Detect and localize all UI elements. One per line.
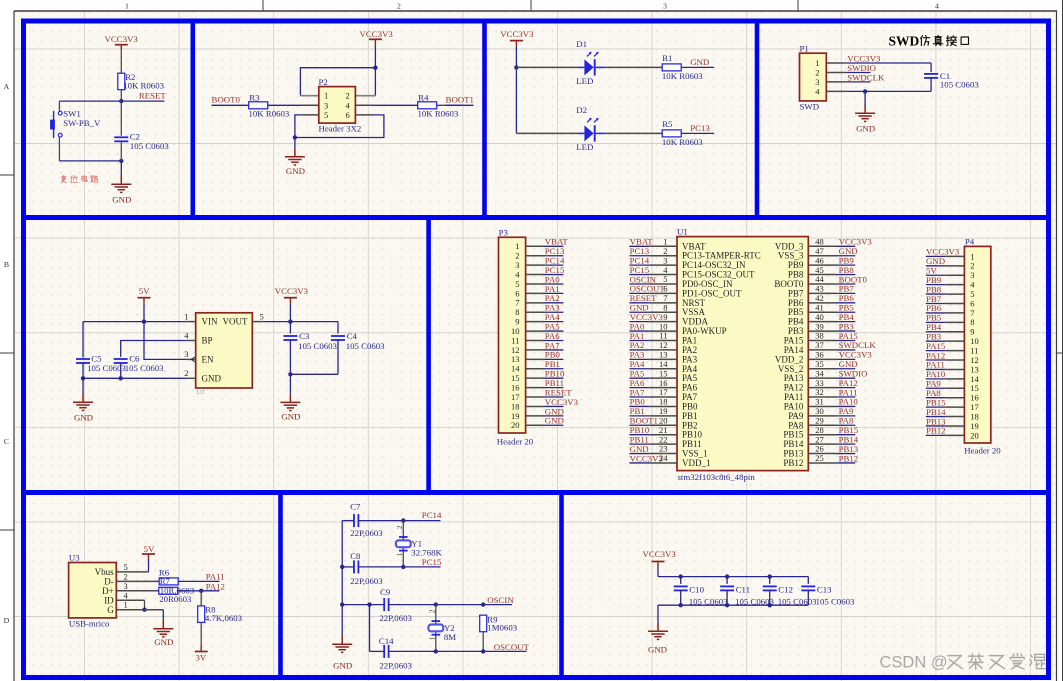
U1 pin 6 wire + net OSCOUT bbox=[629, 284, 677, 294]
P3 pin 8 wire + net PA3 bbox=[515, 303, 563, 318]
svg-text:R1: R1 bbox=[662, 53, 672, 63]
P4 pin 15 wire + net PA9 bbox=[926, 379, 979, 394]
capacitor C12 bbox=[763, 586, 777, 590]
wire left down to switch bbox=[58, 101, 60, 111]
crystal Y1 pin line bbox=[402, 521, 404, 567]
svg-text:SWD: SWD bbox=[889, 33, 920, 48]
resistor R2 bbox=[118, 73, 125, 90]
junction Y1 bottom bbox=[401, 565, 405, 569]
junction C10 bottom bbox=[679, 603, 683, 607]
wire C4 drop bbox=[337, 322, 339, 334]
svg-text:LED: LED bbox=[576, 142, 593, 152]
svg-text:105 C0603: 105 C0603 bbox=[298, 341, 337, 351]
P4 pin 2 wire + net GND bbox=[926, 256, 975, 271]
pin 2 stub of P2 bbox=[355, 95, 375, 97]
U1 pin 24 wire + net VCC3V3 bbox=[629, 453, 677, 463]
junction led rows bbox=[514, 65, 518, 69]
svg-text:PB12: PB12 bbox=[783, 458, 803, 468]
P4 pin 16 wire + net PA8 bbox=[926, 388, 979, 403]
U1 pin 30 wire + net PA9 bbox=[808, 406, 855, 416]
svg-text:10K R0603: 10K R0603 bbox=[123, 80, 164, 90]
wire 5V down bbox=[143, 304, 145, 322]
wire 5V down to EN bbox=[144, 322, 186, 360]
wire C6 to gnd rail bbox=[120, 363, 122, 379]
pin 6 stub of P2 bbox=[355, 114, 373, 116]
U1 pin 7 wire + net RESET bbox=[629, 293, 677, 303]
junction gnd node bbox=[293, 135, 297, 139]
wire D1 to R1 bbox=[605, 66, 662, 68]
svg-text:R5: R5 bbox=[662, 119, 673, 129]
U1 pin 33 wire + net PA12 bbox=[808, 378, 858, 388]
P3 pin 6 wire + net PA1 bbox=[515, 284, 563, 299]
ground (regulator input) bbox=[73, 394, 93, 410]
svg-text:22P,0603: 22P,0603 bbox=[350, 528, 383, 538]
U1 pin 45 wire + net PB8 bbox=[808, 265, 855, 275]
P3 pin 19 wire + net GND bbox=[511, 406, 564, 421]
svg-text:C10: C10 bbox=[689, 585, 704, 595]
svg-text:22P,0603: 22P,0603 bbox=[379, 661, 412, 671]
ground (decoupling) bbox=[648, 623, 668, 639]
svg-text:3V: 3V bbox=[196, 652, 207, 662]
svg-text:U3: U3 bbox=[69, 553, 80, 563]
U1 pin 46 wire + net PB9 bbox=[808, 255, 855, 265]
wire D2 to R5 bbox=[605, 132, 662, 134]
U1 pin 27 wire + net PB14 bbox=[808, 434, 858, 444]
svg-text:3: 3 bbox=[124, 581, 128, 591]
junction Y2 bottom bbox=[434, 649, 438, 653]
svg-text:C4: C4 bbox=[347, 331, 358, 341]
U1 pin 42 wire + net PB6 bbox=[808, 293, 855, 303]
U1 pin 4 wire + net PC15 bbox=[629, 265, 677, 275]
U1 pin 31 wire + net PA10 bbox=[808, 397, 858, 407]
wire VIN row bbox=[83, 321, 186, 323]
U1 pin 15 wire + net PA5 bbox=[629, 368, 677, 378]
crystal Y2 bbox=[428, 621, 443, 635]
junction VCC/loop bbox=[373, 66, 377, 70]
wire down to ground (reg out) bbox=[289, 374, 291, 394]
U1 pin 5 wire + net OSCIN bbox=[629, 274, 677, 284]
junction C3 gnd bbox=[288, 372, 292, 376]
power VCC3V3 (boot section) bbox=[360, 29, 394, 45]
junction C5 gnd bbox=[81, 376, 85, 380]
wire pin5 down bbox=[295, 115, 302, 138]
resistor R7 bbox=[159, 587, 178, 594]
wire R1 to GND label bbox=[681, 66, 714, 68]
svg-text:20R0603: 20R0603 bbox=[159, 594, 192, 604]
svg-text:VIN: VIN bbox=[202, 317, 218, 327]
wire R9 bottom bbox=[482, 632, 484, 652]
resistor R6 bbox=[159, 578, 178, 585]
svg-text:105 C0603: 105 C0603 bbox=[346, 341, 385, 351]
wire R6 to PA11 bbox=[178, 580, 219, 582]
svg-text:GND: GND bbox=[202, 373, 222, 383]
svg-text:GND: GND bbox=[690, 57, 709, 67]
wire C5 down from VIN bbox=[82, 322, 84, 358]
capacitor C9 bbox=[384, 598, 388, 611]
svg-text:GND: GND bbox=[856, 124, 875, 134]
svg-text:C12: C12 bbox=[778, 585, 793, 595]
P4 pin 17 wire + net PB15 bbox=[926, 397, 979, 412]
svg-text:4.7K,0603: 4.7K,0603 bbox=[205, 613, 243, 623]
wire C10 stub bottom bbox=[680, 590, 682, 605]
U1 pin 26 wire + net PB13 bbox=[808, 444, 858, 454]
P3 pin 13 wire + net PB0 bbox=[511, 350, 563, 365]
diode D1 LED bbox=[578, 52, 605, 76]
wire R4 to BOOT1 bbox=[437, 104, 463, 106]
svg-text:BOOT0: BOOT0 bbox=[212, 95, 241, 105]
svg-text:U2: U2 bbox=[197, 389, 205, 396]
wire VOUT to caps bbox=[262, 321, 338, 323]
wire pin1 to C1 top / VCC3V3 bbox=[845, 62, 931, 64]
svg-text:GND: GND bbox=[286, 166, 305, 176]
wire gnd rail (regulator) bbox=[83, 377, 186, 379]
svg-text:105 C0603: 105 C0603 bbox=[125, 363, 164, 373]
wire PC14 row left bbox=[342, 520, 354, 522]
P3 pin 10 wire + net PA5 bbox=[511, 321, 563, 336]
junction C12 top bbox=[768, 574, 772, 578]
wire VCC3V3 down bbox=[515, 47, 517, 68]
svg-text:D+: D+ bbox=[102, 586, 114, 596]
wire C1 vertical bottom bbox=[930, 78, 932, 92]
header P3 box bbox=[499, 237, 526, 433]
U1 pin 18 wire + net PB0 bbox=[629, 397, 677, 407]
ground (usb) bbox=[153, 621, 173, 637]
svg-text:GND: GND bbox=[74, 412, 93, 422]
capacitor C11 bbox=[720, 586, 734, 590]
U1 pin 41 wire + net PB5 bbox=[808, 302, 855, 312]
P3 pin 3 wire + net PC14 bbox=[515, 256, 565, 271]
U1 pin 36 wire + net VCC3V3 bbox=[808, 350, 872, 360]
power 5V (usb) bbox=[142, 544, 155, 560]
wire to ground (swd) bbox=[864, 91, 866, 105]
U1 pin 28 wire + net PB15 bbox=[808, 425, 858, 435]
U1 pin 39 wire + net PB3 bbox=[808, 321, 855, 331]
junction Y2 top bbox=[434, 602, 438, 606]
junction swd gnd bbox=[863, 89, 867, 93]
svg-text:105 C0603: 105 C0603 bbox=[130, 141, 169, 151]
svg-text:24: 24 bbox=[659, 453, 668, 463]
U1 pin 23 wire + net GND bbox=[629, 444, 677, 454]
wire PC15 label bbox=[403, 566, 440, 568]
svg-text:C11: C11 bbox=[736, 585, 750, 595]
P4 pin 12 wire + net PA12 bbox=[926, 350, 979, 365]
svg-text:GND: GND bbox=[281, 411, 300, 421]
svg-text:VCC3V3: VCC3V3 bbox=[643, 549, 677, 559]
P3 pin 5 wire + net PA0 bbox=[515, 274, 563, 289]
P4 pin 19 wire + net PB13 bbox=[926, 416, 979, 431]
P3 pin 20 wire + net GND bbox=[511, 416, 564, 431]
P4 pin 3 wire + net 5V bbox=[926, 266, 975, 281]
svg-text:GND: GND bbox=[112, 195, 131, 205]
wire C13 stub top bbox=[807, 577, 809, 584]
wire VCC3V3 down bbox=[374, 45, 376, 67]
svg-text:PB12: PB12 bbox=[839, 453, 859, 463]
svg-text:5: 5 bbox=[324, 110, 328, 120]
P4 pin 8 wire + net PB5 bbox=[926, 313, 975, 328]
U1 pin 22 wire + net PB11 bbox=[629, 434, 677, 444]
capacitor C2 bbox=[114, 137, 128, 141]
wire VCC3V3 to R2 bbox=[120, 51, 122, 73]
P3 pin 4 wire + net PC15 bbox=[515, 265, 565, 280]
svg-text:1M0603: 1M0603 bbox=[487, 623, 517, 633]
P4 pin 10 wire + net PB3 bbox=[926, 331, 979, 346]
power 3V bbox=[195, 646, 208, 663]
U1 pin 12 wire + net PA2 bbox=[629, 340, 677, 350]
pin 2 stub (U2 GND) bbox=[186, 377, 195, 379]
mcu U1 box bbox=[677, 237, 808, 471]
svg-text:2: 2 bbox=[346, 91, 350, 101]
svg-text:VCC3V3: VCC3V3 bbox=[360, 29, 394, 39]
P4 pin 18 wire + net PB14 bbox=[926, 407, 979, 422]
svg-text:PC14: PC14 bbox=[422, 510, 442, 520]
U1 pin 29 wire + net PA8 bbox=[808, 415, 855, 425]
capacitor C10 bbox=[674, 586, 688, 590]
wire down to ground (caps) bbox=[657, 605, 659, 623]
capacitor C4 bbox=[331, 336, 345, 340]
svg-text:VCC3V3: VCC3V3 bbox=[105, 34, 139, 44]
svg-text:RESET: RESET bbox=[139, 91, 167, 101]
svg-text:1: 1 bbox=[395, 552, 404, 556]
ground (swd section) bbox=[855, 105, 875, 121]
svg-text:LED: LED bbox=[576, 76, 593, 86]
junction bottom rail bbox=[119, 159, 123, 163]
svg-text:VCC3V3: VCC3V3 bbox=[847, 53, 881, 63]
svg-text:D: D bbox=[4, 616, 10, 625]
P3 pin 7 wire + net PA2 bbox=[515, 293, 563, 308]
svg-text:SWDCLK: SWDCLK bbox=[847, 72, 885, 82]
U1 pin 47 wire + net GND bbox=[808, 246, 857, 256]
wire loop pin1-pin2 to VCC bbox=[300, 68, 375, 96]
wire PC14 label bbox=[403, 520, 440, 522]
P3 pin 11 wire + net PA6 bbox=[511, 331, 563, 346]
wire pin6 loop to gnd node bbox=[295, 115, 384, 138]
svg-text:PB12: PB12 bbox=[926, 426, 946, 436]
wire VCC down to D2 row bbox=[515, 67, 517, 133]
svg-text:3: 3 bbox=[815, 77, 819, 87]
wire pin4 to C1 bottom bbox=[845, 90, 931, 92]
P4 pin 13 wire + net PA11 bbox=[926, 360, 979, 375]
svg-text:C9: C9 bbox=[380, 587, 391, 597]
junction RESET node bbox=[119, 99, 123, 103]
svg-text:PC15: PC15 bbox=[422, 557, 442, 567]
wire switch to bottom rail bbox=[58, 137, 60, 161]
wire bottom rail (caps) bbox=[658, 604, 808, 606]
power VCC3V3 (led section) bbox=[500, 29, 534, 47]
junction R9 top bbox=[481, 602, 485, 606]
wire left rail (crystals) bbox=[341, 521, 343, 636]
wire C12 stub top bbox=[769, 577, 771, 584]
svg-text:5: 5 bbox=[124, 562, 128, 572]
wire C13 stub bottom bbox=[807, 590, 809, 605]
capacitor C14 bbox=[384, 645, 388, 658]
svg-text:10K R0603: 10K R0603 bbox=[662, 71, 703, 81]
U1 pin 2 wire + net PC13 bbox=[629, 246, 677, 256]
svg-text:Header 3X2: Header 3X2 bbox=[319, 123, 362, 133]
svg-text:VCC3V3: VCC3V3 bbox=[275, 286, 309, 296]
resistor R4 bbox=[418, 102, 437, 109]
wire C5 to gnd rail bbox=[82, 363, 84, 379]
header P2 3x2 bbox=[319, 87, 356, 124]
P3 pin 17 wire + net RESET bbox=[511, 387, 572, 402]
svg-text:PA11: PA11 bbox=[206, 571, 225, 581]
U1 pin 25 wire + net PB12 bbox=[808, 453, 858, 463]
P3 pin 14 wire + net PB1 bbox=[511, 359, 563, 374]
svg-text:3: 3 bbox=[184, 349, 188, 359]
svg-text:1: 1 bbox=[324, 91, 328, 101]
svg-text:105 C0603: 105 C0603 bbox=[816, 597, 855, 607]
U1 pin 21 wire + net PB10 bbox=[629, 425, 677, 435]
pin 4 stub (P1) bbox=[826, 90, 845, 92]
resistor R5 bbox=[662, 130, 681, 137]
P3 pin 12 wire + net PA7 bbox=[511, 340, 563, 355]
U1 pin 16 wire + net PA6 bbox=[629, 378, 677, 388]
wire pin4 to R4 bbox=[374, 104, 418, 106]
svg-text:5V: 5V bbox=[139, 286, 150, 296]
svg-text:2: 2 bbox=[397, 2, 401, 11]
svg-text:VCC3V3: VCC3V3 bbox=[500, 29, 534, 39]
P4 pin 11 wire + net PA15 bbox=[926, 341, 979, 356]
P3 pin 2 wire + net PC13 bbox=[515, 246, 565, 261]
svg-text:D2: D2 bbox=[576, 105, 587, 115]
svg-text:GND: GND bbox=[648, 645, 667, 655]
P4 pin 14 wire + net PA10 bbox=[926, 369, 980, 384]
wire Vbus bbox=[116, 571, 148, 573]
ground (crystals) bbox=[332, 636, 352, 652]
svg-text:Header 20: Header 20 bbox=[497, 437, 534, 447]
svg-text:2: 2 bbox=[395, 525, 404, 529]
junction PA12/R8 bbox=[199, 589, 203, 593]
svg-text:4: 4 bbox=[935, 2, 939, 11]
P4 pin 9 wire + net PB4 bbox=[926, 322, 975, 337]
wire top rail (caps) bbox=[658, 576, 808, 578]
svg-text:U1: U1 bbox=[677, 227, 688, 237]
svg-text:D1: D1 bbox=[576, 39, 587, 49]
capacitor C6 bbox=[114, 359, 128, 363]
crystal Y1 bbox=[396, 537, 411, 551]
wire C14 to OSCOUT bbox=[389, 650, 527, 652]
svg-text:A: A bbox=[4, 82, 10, 91]
wire to D2 bbox=[516, 132, 578, 134]
wire RESET horizontal bbox=[59, 100, 164, 102]
svg-text:SWD: SWD bbox=[800, 101, 820, 111]
wire C1 vertical top bbox=[930, 63, 932, 72]
junction C8 row rail bbox=[340, 565, 344, 569]
svg-text:Header 20: Header 20 bbox=[964, 446, 1001, 456]
ground (regulator output) bbox=[280, 394, 300, 410]
svg-text:R4: R4 bbox=[418, 93, 429, 103]
P3 pin 1 wire + net VBAT bbox=[515, 237, 568, 252]
svg-text:25: 25 bbox=[815, 453, 824, 463]
svg-text:CSDN @: CSDN @ bbox=[880, 653, 948, 671]
svg-text:C13: C13 bbox=[817, 585, 832, 595]
U1 pin 9 wire + net VCC3V3 bbox=[629, 312, 677, 322]
svg-text:G: G bbox=[107, 605, 114, 615]
svg-text:2: 2 bbox=[815, 67, 819, 77]
svg-text:BP: BP bbox=[202, 336, 213, 346]
U1 pin 19 wire + net PB1 bbox=[629, 406, 677, 416]
wire Vbus up to 5V bbox=[148, 560, 150, 572]
U1 pin 40 wire + net PB4 bbox=[808, 312, 855, 322]
header P1 SWD bbox=[800, 53, 827, 101]
junction C11 bottom bbox=[725, 603, 729, 607]
header P4 box bbox=[964, 246, 990, 443]
wire to D1 bbox=[516, 66, 578, 68]
svg-text:P4: P4 bbox=[965, 236, 975, 246]
crystal Y2 pin line bbox=[435, 605, 437, 652]
svg-text:VDD_1: VDD_1 bbox=[682, 458, 711, 468]
P4 pin 1 wire + net VCC3V3 bbox=[926, 247, 975, 262]
pin 1 stub (P1) bbox=[826, 62, 845, 64]
junction C11 top bbox=[725, 574, 729, 578]
P3 pin 18 wire + net VCC3V3 bbox=[511, 397, 579, 412]
wire VCC3V3 down to rail bbox=[657, 568, 659, 577]
svg-text:P2: P2 bbox=[319, 77, 328, 87]
svg-text:C3: C3 bbox=[299, 331, 310, 341]
wire R2 to RESET node bbox=[120, 90, 122, 101]
svg-text:1: 1 bbox=[184, 311, 188, 321]
junction C14 branch bbox=[367, 602, 371, 606]
wire VCC3V3 down to C3 bbox=[289, 304, 291, 334]
junction C12 bottom bbox=[768, 603, 772, 607]
wire G bbox=[116, 609, 163, 611]
U1 pin 8 wire + net GND bbox=[629, 302, 677, 312]
wire C14 branch down bbox=[369, 605, 371, 652]
P3 pin 16 wire + net PB11 bbox=[511, 378, 564, 393]
svg-text:10K R0603: 10K R0603 bbox=[662, 137, 703, 147]
svg-text:22P,0603: 22P,0603 bbox=[350, 576, 383, 586]
svg-text:1: 1 bbox=[427, 636, 436, 640]
svg-text:105 C0603: 105 C0603 bbox=[940, 80, 979, 90]
pin 1 stub of P2 bbox=[300, 95, 318, 97]
svg-text:GND: GND bbox=[154, 637, 173, 647]
wire G down to ground bbox=[162, 610, 164, 621]
resistor R9 bbox=[480, 615, 487, 632]
U1 pin 34 wire + net SWDIO bbox=[808, 368, 867, 378]
junction R9 bottom bbox=[481, 649, 485, 653]
junction C10 top bbox=[679, 574, 683, 578]
svg-text:20: 20 bbox=[511, 420, 520, 430]
svg-text:C14: C14 bbox=[379, 636, 394, 646]
usb U3 box bbox=[69, 563, 117, 618]
svg-text:6: 6 bbox=[346, 110, 350, 120]
svg-text:OSCIN: OSCIN bbox=[487, 595, 514, 605]
wire C3 down bbox=[289, 340, 291, 375]
svg-text:VOUT: VOUT bbox=[223, 317, 248, 327]
junction 5V/VIN bbox=[142, 319, 146, 323]
svg-text:3: 3 bbox=[324, 100, 328, 110]
capacitor C7 bbox=[354, 514, 358, 527]
svg-text:5: 5 bbox=[260, 311, 264, 321]
P4 pin 20 wire + net PB12 bbox=[926, 426, 979, 441]
svg-text:10K R0603: 10K R0603 bbox=[249, 109, 290, 119]
capacitor C5 bbox=[76, 359, 90, 363]
svg-text:1: 1 bbox=[125, 2, 129, 11]
wire R8 down to 3V bbox=[200, 622, 202, 645]
svg-text:22P,0603: 22P,0603 bbox=[379, 613, 412, 623]
wire SWDIO bbox=[845, 72, 870, 74]
pin 3 stub (P1) bbox=[826, 81, 845, 83]
power VCC3V3 (decoupling) bbox=[643, 549, 677, 568]
svg-text:GND: GND bbox=[545, 416, 564, 426]
wire RESET node down to C2 bbox=[120, 101, 122, 136]
wire C4 down bbox=[337, 340, 339, 375]
U1 pin 17 wire + net PA7 bbox=[629, 387, 677, 397]
pin 3 stub (U2 EN) bbox=[186, 358, 195, 360]
svg-text:BOOT1: BOOT1 bbox=[446, 95, 474, 105]
wire D+ to R7 bbox=[116, 590, 159, 592]
svg-text:stm32f103c8t6_48pin: stm32f103c8t6_48pin bbox=[678, 472, 756, 482]
U1 pin 14 wire + net PA4 bbox=[629, 359, 677, 369]
